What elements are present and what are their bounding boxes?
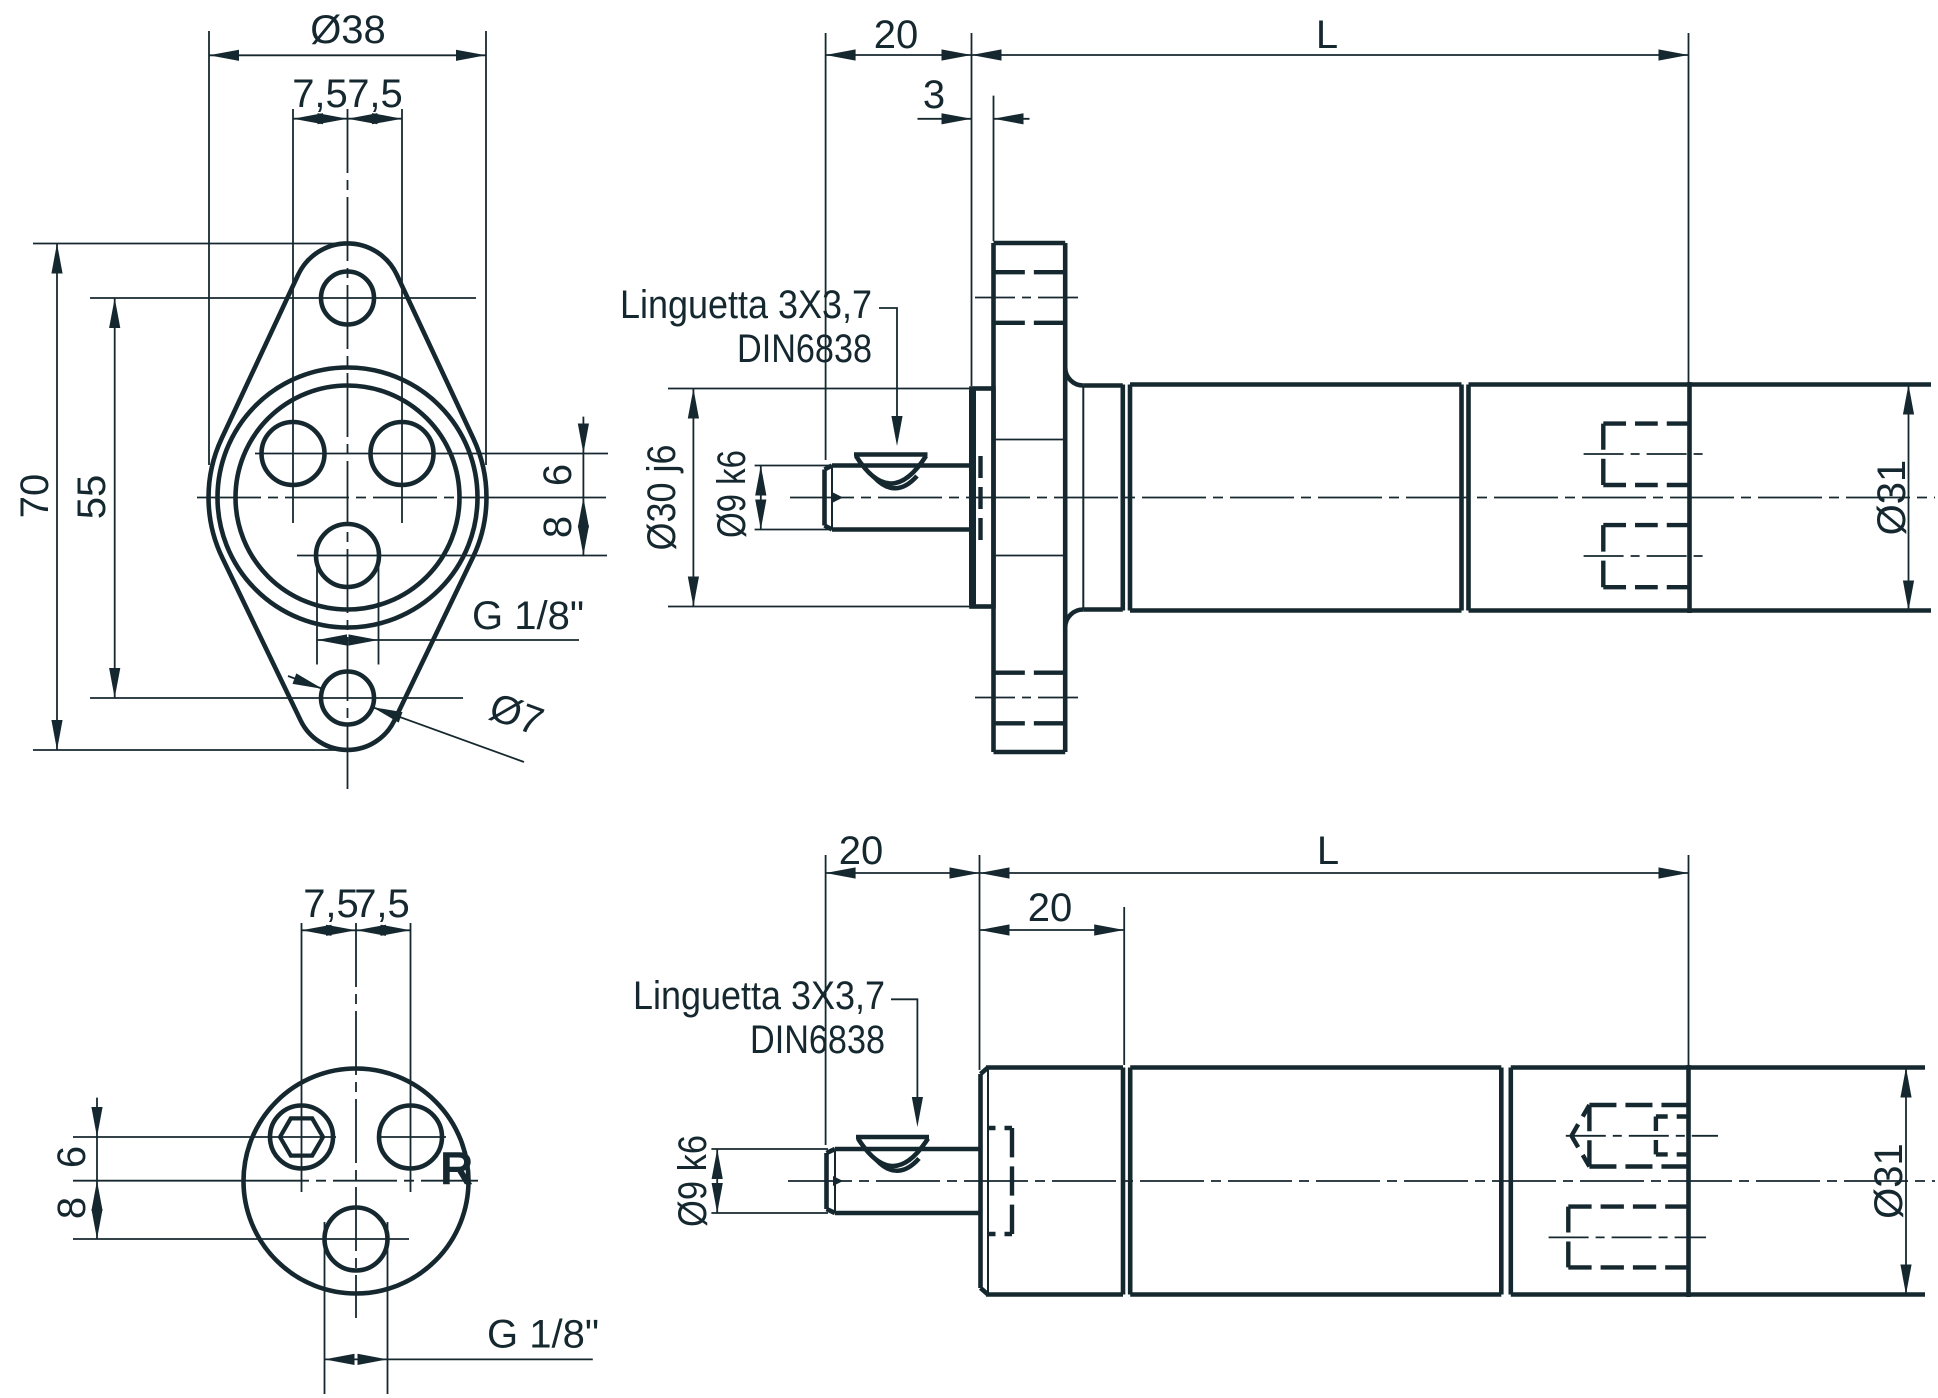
- svg-text:Ø9 k6: Ø9 k6: [671, 1135, 715, 1227]
- svg-text:7,5: 7,5: [292, 72, 348, 116]
- dimension L extension bottom: [979, 855, 981, 1070]
- boss inner circle: [236, 386, 460, 610]
- disc top bolt hole hidden: [994, 270, 1066, 274]
- cylinder 1: [1130, 382, 1462, 387]
- body joint 2: [1509, 1068, 1514, 1295]
- dimension 20 line bottom: [826, 872, 980, 874]
- dimension Ø38 extension lines: [208, 31, 210, 465]
- shaft center-drill mark bottom: [833, 1176, 843, 1186]
- port centerline top: [1584, 453, 1709, 455]
- linguetta leader bottom: [891, 999, 917, 1121]
- woodruff key bottom: [856, 1135, 929, 1140]
- shaft Ø9 outline bottom: [835, 1147, 980, 1152]
- svg-text:7,5: 7,5: [303, 882, 359, 926]
- bolt hole bottom (Ø7): [321, 672, 374, 725]
- hole centerline left: [292, 109, 294, 523]
- body section 3: [1511, 1065, 1689, 1070]
- Ø7 leader: [288, 676, 323, 689]
- svg-text:7,5: 7,5: [354, 882, 410, 926]
- dimension Ø9 k6 line bottom: [716, 1149, 718, 1213]
- dimension L line bottom: [980, 872, 1689, 874]
- vertical centerline bottom view: [355, 923, 357, 1318]
- dimension Ø31 line bottom: [1905, 1068, 1907, 1295]
- disc bottom bolt hole centerline: [975, 697, 1085, 699]
- dimension 20b line: [980, 929, 1125, 931]
- bottom hole horizontal line: [73, 1238, 409, 1240]
- hole centerline left vertical: [301, 923, 303, 1192]
- port hole bottom: [325, 1208, 388, 1271]
- fillet bottom: [1065, 609, 1083, 627]
- bottom hole horizontal centerline: [297, 555, 607, 557]
- vertical centerline: [347, 109, 349, 792]
- svg-text:G 1/8": G 1/8": [472, 594, 584, 638]
- G 1/8 extension lines bottom: [324, 1222, 326, 1394]
- fillet top: [1065, 368, 1083, 386]
- boss outer circle: [218, 368, 478, 628]
- dimension Ø38 line: [209, 54, 486, 56]
- port hole right (G 1/8): [371, 422, 434, 485]
- svg-text:L: L: [1316, 13, 1338, 57]
- pilot plate Ø30: [972, 389, 994, 607]
- svg-text:Ø31: Ø31: [1867, 1143, 1911, 1219]
- dimension Ø31 line: [1908, 385, 1910, 611]
- shaft center-drill mark: [833, 493, 843, 503]
- dimension 55 line: [114, 298, 116, 698]
- hex socket: [280, 1118, 323, 1155]
- port hole right: [379, 1106, 442, 1169]
- port hole hidden top bottom-view: [1587, 1105, 1591, 1167]
- upper holes horizontal centerline: [255, 453, 608, 455]
- svg-text:7,5: 7,5: [347, 72, 403, 116]
- G 1/8 dimension line: [317, 639, 579, 641]
- dimension L line: [972, 54, 1689, 56]
- dimension L extension lines: [971, 33, 973, 386]
- svg-text:55: 55: [70, 475, 114, 520]
- svg-text:Linguetta 3X3,7: Linguetta 3X3,7: [620, 283, 872, 327]
- svg-text:8: 8: [536, 516, 580, 538]
- disc bore lines: [994, 439, 1066, 441]
- dimension 20 extension bottom: [825, 855, 827, 1145]
- svg-text:G 1/8": G 1/8": [487, 1313, 599, 1357]
- hidden hub line at plate: [978, 456, 982, 540]
- linguetta leader: [879, 308, 897, 440]
- svg-text:Ø7: Ø7: [484, 685, 549, 745]
- svg-text:DIN6838: DIN6838: [750, 1018, 885, 1062]
- svg-text:70: 70: [13, 474, 57, 519]
- bolt hole top (Ø7): [321, 272, 374, 325]
- port hole hidden bottom bottom-view: [1566, 1207, 1570, 1268]
- dimension 70 line: [56, 244, 58, 751]
- body circle (front view): [244, 1069, 469, 1294]
- dimension 55 extension lines: [90, 297, 476, 299]
- rear section: [1690, 382, 1932, 387]
- port hole hidden bottom: [1601, 525, 1605, 587]
- port hole left with hex socket: [270, 1106, 333, 1169]
- port hole left (G 1/8): [262, 422, 325, 485]
- dimension 6-8 line bottom: [96, 1098, 98, 1239]
- port centerline bottom: [1584, 555, 1709, 557]
- G 1/8 dimension line bottom: [325, 1358, 593, 1360]
- port hole bottom (G 1/8): [316, 524, 379, 587]
- svg-text:6: 6: [50, 1146, 94, 1168]
- dimension 7,5 7,5 line: [293, 118, 402, 120]
- horizontal centerline: [197, 497, 475, 499]
- svg-text:Ø31: Ø31: [1870, 460, 1914, 536]
- centerline bottom side view: [788, 1180, 1935, 1182]
- woodruff key (side): [854, 452, 928, 457]
- svg-text:6: 6: [536, 464, 580, 486]
- dimension Ø30 j6 extension lines: [668, 388, 985, 390]
- dimension 7,5 7,5 line bottom: [302, 929, 411, 931]
- flange disc side: [991, 243, 996, 752]
- port centerline top bottom-view: [1566, 1135, 1718, 1137]
- svg-text:L: L: [1317, 829, 1339, 873]
- body section 1: [986, 1065, 1123, 1070]
- shaft Ø9 outline: [832, 463, 972, 468]
- body joint: [1128, 1068, 1133, 1295]
- body rear section: [1689, 1065, 1926, 1070]
- dimension 6-8 line: [582, 417, 584, 557]
- dimension 3 extension line: [993, 96, 995, 241]
- body face: [978, 1074, 983, 1288]
- dimension Ø30 j6 line: [692, 389, 694, 607]
- horizontal centerline bottom view: [73, 1180, 245, 1182]
- cylinder 2: [1466, 385, 1471, 611]
- disc top bolt hole centerline: [975, 297, 1085, 299]
- joint lines: [1121, 385, 1126, 611]
- side view centerline: [790, 497, 1935, 499]
- svg-text:DIN6838: DIN6838: [737, 327, 872, 371]
- dimension Ø9 k6 line: [760, 466, 762, 530]
- dimension 70 extension lines: [33, 243, 340, 245]
- svg-text:20: 20: [839, 829, 884, 873]
- port centerline bottom bottom-view: [1549, 1236, 1706, 1238]
- svg-text:20: 20: [874, 13, 919, 57]
- disc bottom bolt hole hidden: [994, 671, 1066, 675]
- svg-text:Ø30 j6: Ø30 j6: [640, 445, 684, 551]
- body section 2: [1130, 1065, 1501, 1070]
- G 1/8 extension lines: [316, 560, 318, 665]
- port hole hidden top: [1601, 424, 1605, 485]
- dimension 20 extension line: [825, 33, 827, 460]
- svg-text:Ø9 k6: Ø9 k6: [710, 450, 754, 538]
- svg-text:8: 8: [50, 1197, 94, 1219]
- upper holes horizontal line: [73, 1136, 336, 1138]
- dimension Ø9 k6 extension lines: [755, 465, 830, 467]
- dimension 20b extension: [1123, 907, 1125, 1065]
- svg-text:20: 20: [1028, 886, 1073, 930]
- dimension 20 line: [826, 54, 972, 56]
- hole centerline right vertical: [410, 923, 412, 1192]
- dimension Ø9 k6 ext bottom: [711, 1148, 828, 1150]
- svg-text:Ø38: Ø38: [310, 8, 386, 52]
- svg-text:Linguetta 3X3,7: Linguetta 3X3,7: [633, 974, 885, 1018]
- hole centerline right: [401, 109, 403, 523]
- hidden hub bottom: [1010, 1128, 1014, 1234]
- tangent line: [1082, 386, 1084, 610]
- dimension 3 line: [918, 118, 972, 120]
- neck edges: [1083, 383, 1123, 388]
- flange outline (front view): [209, 243, 487, 750]
- svg-text:R: R: [440, 1142, 473, 1194]
- svg-text:3: 3: [923, 73, 945, 117]
